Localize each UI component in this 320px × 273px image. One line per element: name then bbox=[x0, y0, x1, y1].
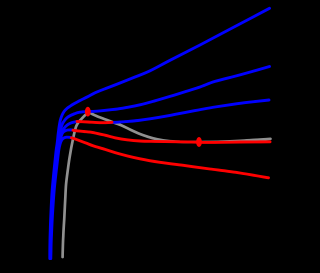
blue isobar B1 (top) bbox=[50, 8, 270, 258]
isobar R1 left blue segment bbox=[51, 130, 75, 259]
isobar B3 right blue segment bbox=[111, 100, 269, 122]
gray coexistence dome curve bbox=[63, 112, 271, 257]
isobar R1 red segment bbox=[73, 130, 270, 142]
critical point marker (red dot) bbox=[85, 107, 91, 117]
isobar R2 left blue segment bbox=[51, 137, 73, 258]
curve-minimum marker (red dot) bbox=[196, 137, 202, 147]
isobar B3 left blue segment bbox=[50, 121, 78, 258]
isobar R2 red segment bbox=[72, 138, 269, 178]
blue isobar B2 (critical, through dot) bbox=[50, 67, 270, 259]
isobar B3 red segment bbox=[77, 121, 112, 122]
